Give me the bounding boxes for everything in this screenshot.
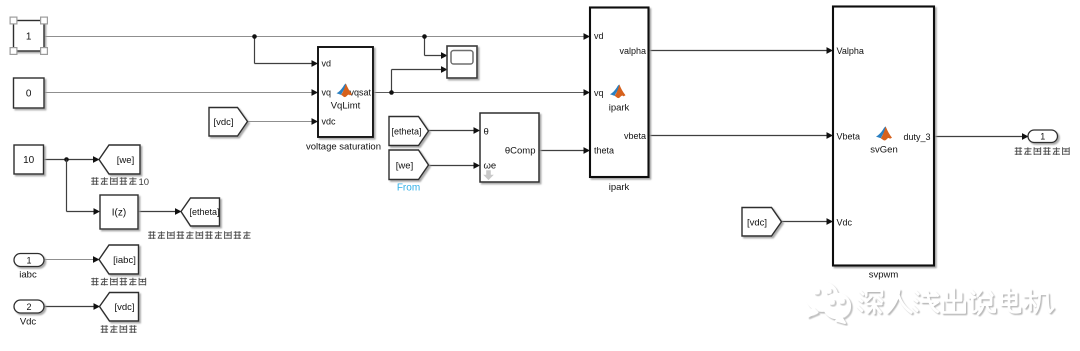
annotation: bus voltage [101,326,136,333]
Inport 2 Vdc [14,300,44,313]
Goto tag [we] [99,145,140,174]
arrowhead into VqLimt vq [312,89,319,96]
arrowhead into Scope input 2 [441,66,448,73]
wire: branch down to Scope input 1 [424,37,426,56]
gray down-arrow icon in thetaComp [483,170,494,180]
junction node on Constant10 wire [64,157,69,162]
wire: ipark valpha to svGen Valpha [649,50,828,52]
watermark text shen-ru-qian-chu-shuo-dian-ji (embossed) [859,290,1054,315]
arrowhead into thetaComp we [474,162,481,169]
subsystem VqLimt (voltage saturation) [318,47,373,137]
junction node on Constant1 wire at Scope branch [422,34,427,39]
wire: Constant0 output to VqLimt vq [44,92,313,94]
svg-text:θComp: θComp [505,146,536,157]
Goto tag [iabc] [99,245,139,274]
svg-text:θ: θ [484,126,489,137]
svg-text:From: From [397,183,420,194]
annotation: from current sampling [92,278,146,285]
wire: Inport Vdc to Goto vdc [44,306,94,308]
svg-text:10: 10 [139,177,150,188]
svg-text:Vdc: Vdc [20,317,37,328]
wire: branch down to I(z) integrator [66,160,68,212]
svg-text:vbeta: vbeta [624,131,646,141]
wire: branch up to Scope input 2 [391,70,393,93]
svg-text:duty_3: duty_3 [903,132,930,142]
wire: Constant10 output to Goto we [44,159,94,161]
constant block "10" [14,145,44,174]
wire: From vdc to VqLimt vdc [248,121,314,123]
svg-text:1: 1 [1040,132,1045,142]
svg-text:vq: vq [322,88,332,98]
svg-text:Vdc: Vdc [837,217,853,227]
arrowhead into Goto we [93,156,100,163]
arrowhead into Goto iabc [93,256,100,263]
junction node on Constant1 wire at VqLimt branch [252,34,257,39]
svg-text:svGen: svGen [870,145,897,156]
arrowhead into svGen Vbeta [827,132,834,139]
From tag [etheta] [389,117,429,146]
arrowhead into Goto vdc [94,303,101,310]
arrowhead into Outport duty [1022,133,1029,140]
svg-text:0: 0 [26,89,32,100]
arrowhead into VqLimt vd [312,60,319,67]
subsystem ipark [590,8,649,178]
svg-text:vdc: vdc [322,117,337,127]
svg-text:voltage saturation: voltage saturation [306,142,381,153]
Inport 1 iabc [14,254,44,267]
subsystem svGen (svpwm) [833,7,934,266]
annotation: generate forced angle from given speed [149,232,251,239]
watermark wechat logo (embossed) [808,284,839,313]
wire: thetaComp output to ipark theta [539,150,585,152]
svg-text:svpwm: svpwm [869,270,899,281]
arrowhead into ipark vd [584,33,591,40]
svg-text:ωe: ωe [484,161,497,172]
Goto tag [vdc] lower [100,293,139,322]
wire: ipark vbeta to svGen Vbeta [649,135,828,137]
svg-text:valpha: valpha [619,46,646,56]
arrowhead into svGen Vdc [827,218,834,225]
svg-text:1: 1 [26,255,31,265]
wire: svGen duty_3 to Outport [934,136,1023,138]
From tag [vdc] feeding VqLimt [209,108,248,137]
svg-text:[vdc]: [vdc] [114,302,134,313]
arrowhead into ipark theta [584,147,591,154]
svg-text:vd: vd [322,59,332,69]
annotation: output to duty cycle [1015,148,1069,155]
wire: From we to thetaComp we [429,165,475,167]
svg-text:1: 1 [26,32,32,43]
arrowhead into I(z) [94,208,101,215]
svg-text:ipark: ipark [609,182,630,193]
annotation: speed fixed to 10 [92,178,137,185]
wire: Constant1 output to ipark vd [44,36,587,38]
junction node on vqsat wire [389,90,394,95]
constant block "1" (selected) [14,21,45,52]
arrowhead into thetaComp theta [474,127,481,134]
constant block "0" [14,78,45,108]
subsystem thetaComp [480,113,539,182]
Goto tag [etheta] [181,198,220,226]
wire: VqLimt vqsat output to ipark vq [373,92,587,94]
svg-text:[we]: [we] [396,160,413,171]
From tag [vdc] feeding svGen [742,208,782,237]
svg-text:Valpha: Valpha [837,46,864,56]
arrowhead into Scope input 1 [441,52,448,59]
svg-text:Vbeta: Vbeta [837,131,861,141]
scope block [447,46,477,78]
svg-text:iabc: iabc [19,270,37,281]
arrowhead into svGen Valpha [827,47,834,54]
arrowhead into ipark vq [584,89,591,96]
svg-text:[we]: [we] [117,155,134,166]
From tag [we] [389,150,429,180]
wire: branch down to VqLimt vd [254,37,256,64]
svg-text:10: 10 [23,155,35,166]
svg-text:[etheta]: [etheta] [391,126,421,136]
arrowhead into Goto etheta [175,208,182,215]
wire: From etheta to thetaComp theta [429,130,475,132]
svg-text:VqLimt: VqLimt [331,101,361,112]
svg-text:2: 2 [26,302,31,312]
svg-text:[iabc]: [iabc] [113,255,136,266]
svg-text:[vdc]: [vdc] [747,217,767,228]
svg-text:vq: vq [594,88,604,98]
integrator block I(z) [100,195,138,229]
Outport 1 duty [1028,130,1058,143]
wire: I(z) output to Goto etheta [138,211,176,213]
svg-text:ipark: ipark [609,103,630,114]
wire: From vdc2 to svGen Vdc [782,221,828,223]
svg-text:vqsat: vqsat [349,88,371,98]
svg-text:[vdc]: [vdc] [213,117,233,128]
svg-text:[etheta]: [etheta] [189,207,219,217]
svg-text:vd: vd [594,31,604,41]
arrowhead into VqLimt vdc [312,118,319,125]
wire: Inport iabc to Goto iabc [44,259,94,261]
svg-text:theta: theta [594,146,614,156]
svg-text:I(z): I(z) [112,208,126,219]
